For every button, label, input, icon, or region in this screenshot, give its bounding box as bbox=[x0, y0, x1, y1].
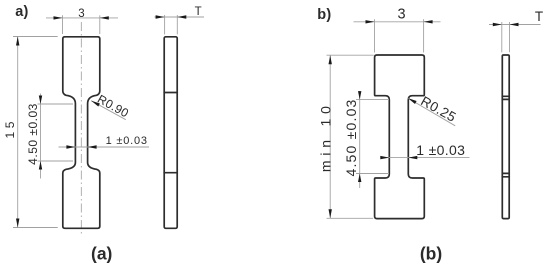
svg-text:(b): (b) bbox=[420, 244, 442, 264]
svg-text:b): b) bbox=[317, 7, 331, 23]
leader R0.25 (b) bbox=[408, 98, 455, 126]
dimension T (a): dim line bbox=[155, 16, 205, 18]
svg-text:3: 3 bbox=[397, 7, 405, 23]
svg-text:(a): (a) bbox=[91, 244, 112, 264]
specimen a side view outline bbox=[164, 37, 177, 229]
dimension 1 (a): arrows bbox=[66, 145, 75, 148]
dimension T (b): extension lines bbox=[501, 22, 503, 52]
dimension T (a): arrows bbox=[156, 15, 165, 18]
dimension 3 (a): dim line bbox=[46, 17, 118, 19]
svg-text:3: 3 bbox=[78, 8, 84, 20]
specimen a side view transition line upper bbox=[164, 92, 177, 94]
dimension T (b): dim line bbox=[489, 24, 541, 26]
specimen b side view transition lines lower bbox=[502, 172, 509, 174]
specimen a front view outline bbox=[63, 37, 100, 229]
specimen b side view transition lines upper bbox=[502, 95, 509, 97]
leader R0.90 (a) bbox=[91, 101, 126, 120]
dimension 1 (b): dim line bbox=[381, 157, 470, 159]
dimension min 10 (b): extension lines bbox=[327, 54, 374, 56]
svg-text:min 10: min 10 bbox=[317, 101, 333, 172]
svg-text:1 ±0.03: 1 ±0.03 bbox=[416, 142, 465, 158]
svg-text:4.50 ±0.03: 4.50 ±0.03 bbox=[343, 98, 359, 176]
dimension 15 (a): dim line bbox=[17, 37, 19, 228]
dimension 15 (a): extension lines bbox=[13, 36, 58, 38]
dimension 3 (b): extension lines bbox=[374, 19, 376, 52]
centerline specimen a bbox=[80, 22, 82, 235]
specimen b front view outline bbox=[375, 55, 425, 219]
dimension 1 (b): arrows bbox=[380, 156, 389, 159]
dimension 4.50 (a): arrows bbox=[39, 96, 42, 105]
dimension 4.50 (b): extension lines bbox=[356, 99, 389, 101]
dimension 3 (a): arrows bbox=[54, 16, 63, 19]
dimension 1 (a): dim line bbox=[59, 146, 150, 148]
svg-text:a): a) bbox=[15, 4, 28, 20]
svg-text:15: 15 bbox=[3, 118, 17, 138]
dimension 3 (b): arrows bbox=[366, 20, 375, 23]
dimension T (b): arrows bbox=[493, 23, 502, 26]
specimen a side view transition line lower bbox=[164, 172, 177, 174]
svg-text:4.50 ±0.03: 4.50 ±0.03 bbox=[26, 103, 40, 165]
dimension 3 (a): extension lines bbox=[62, 15, 64, 34]
svg-text:T: T bbox=[535, 9, 543, 24]
dimension 4.50 (a): dim line bbox=[40, 94, 42, 179]
dimension T (a): extension lines bbox=[164, 15, 166, 34]
dimension min 10 (b): dim line bbox=[329, 55, 331, 218]
dimension 4.50 (a): extension lines bbox=[38, 103, 74, 105]
svg-text:1 ±0.03: 1 ±0.03 bbox=[106, 135, 148, 147]
specimen b side view outline bbox=[502, 55, 509, 219]
dimension min 10 (b): arrows bbox=[329, 55, 332, 64]
dimension 4.50 (b): arrows bbox=[358, 91, 361, 100]
dimension 4.50 (b): dim line bbox=[359, 91, 361, 188]
dimension 15 (a): arrows bbox=[16, 37, 19, 46]
dimension 3 (b): dim line bbox=[354, 21, 441, 23]
svg-text:T: T bbox=[195, 6, 202, 18]
